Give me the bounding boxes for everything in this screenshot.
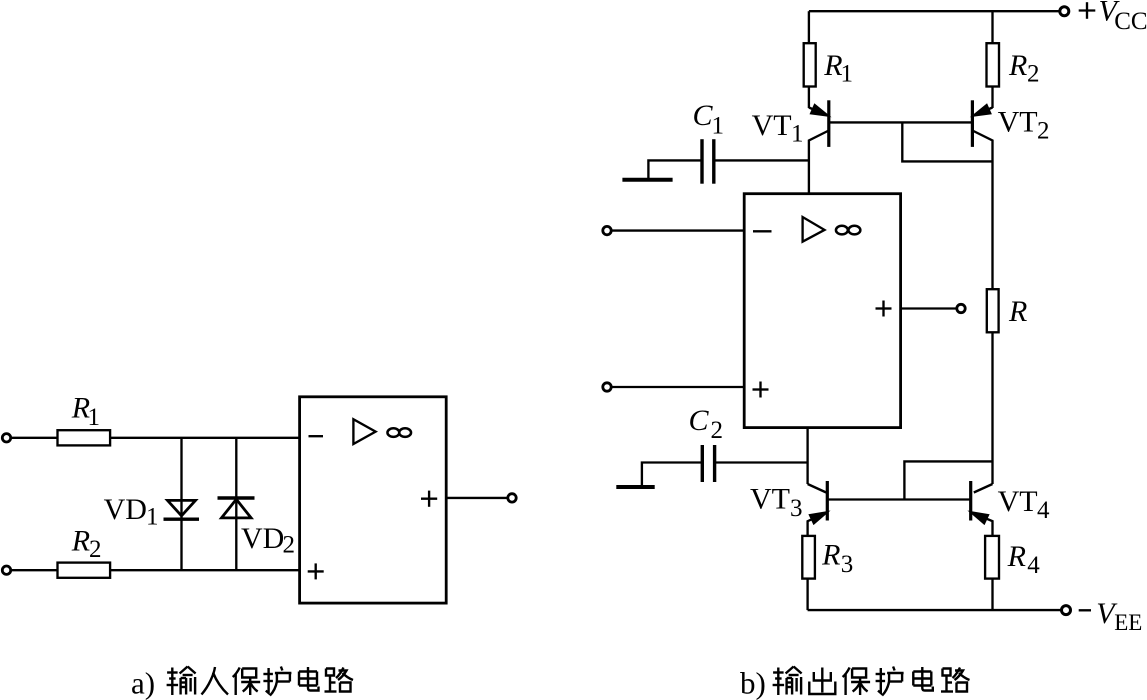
svg-text:VT: VT	[752, 109, 792, 142]
transistor VT2 collector lead	[972, 131, 992, 290]
svg-text:C: C	[689, 404, 710, 437]
wire	[715, 461, 808, 463]
svg-text:2: 2	[711, 417, 724, 444]
wire base VT1-VT2	[829, 121, 973, 123]
svg-text:1: 1	[712, 113, 725, 140]
svg-text:EE: EE	[1114, 610, 1142, 635]
resistor R1b	[804, 43, 816, 86]
transistor VT3 emitter arrow	[810, 512, 827, 523]
svg-text:2: 2	[283, 532, 296, 559]
transistor VT1 collector lead	[809, 131, 829, 194]
transistor VT3 collector lead	[808, 484, 827, 493]
svg-text:VT: VT	[998, 485, 1038, 518]
transistor VT2 bar	[971, 100, 974, 147]
svg-text:CC: CC	[1114, 8, 1147, 35]
wire	[11, 437, 58, 439]
op-amp U1 minus input mark	[309, 435, 324, 437]
svg-text:1: 1	[791, 120, 804, 147]
resistor R4	[985, 536, 999, 579]
wire	[110, 569, 300, 571]
op-amp U1 gain triangle	[353, 419, 375, 444]
transistor VT4 emitter lead	[971, 512, 992, 536]
wire output	[446, 497, 507, 499]
svg-text:2: 2	[1027, 61, 1040, 88]
svg-text:C: C	[693, 99, 714, 132]
wire	[611, 229, 744, 231]
wire	[642, 463, 702, 486]
wire	[991, 11, 993, 43]
svg-text:VD: VD	[104, 493, 147, 526]
transistor VT3 emitter lead	[808, 512, 827, 536]
wire	[808, 87, 810, 109]
transistor VT1 emitter lead	[809, 108, 828, 116]
output terminal OUT1	[508, 494, 516, 502]
VD2 cathode bar	[218, 496, 255, 499]
svg-text:3: 3	[790, 495, 803, 522]
resistor R2b	[987, 43, 1000, 86]
capacitor C2 plates	[701, 445, 704, 482]
transistor VT3 base wire	[827, 498, 970, 500]
op-amp U2 plus output mark	[876, 307, 892, 309]
wire	[991, 579, 993, 611]
svg-text:3: 3	[841, 551, 854, 578]
svg-text:b): b)	[740, 666, 766, 700]
svg-text:2: 2	[89, 536, 102, 563]
ground (C2)	[616, 485, 654, 489]
output terminal OUT2	[957, 304, 965, 312]
resistor R1	[58, 430, 111, 445]
terminal -VEE	[1062, 606, 1071, 615]
caption b chinese: 输出保护电路	[773, 667, 970, 696]
resistor R2	[58, 563, 111, 578]
transistor VT4 base tap	[904, 461, 992, 499]
label +VCC	[1079, 9, 1096, 11]
op-amp U2 plus input mark	[753, 388, 769, 390]
op-amp U1 infinity mark	[387, 428, 399, 437]
svg-text:R: R	[1007, 540, 1026, 573]
resistor R	[987, 289, 999, 332]
wire	[611, 386, 744, 388]
input terminal IN2	[2, 566, 10, 574]
wire	[991, 332, 993, 484]
input terminal b1	[603, 226, 611, 234]
svg-text:4: 4	[1037, 497, 1050, 524]
ground (C1)	[622, 178, 672, 182]
wire op-amp bottom to VT3	[806, 428, 808, 484]
wire	[110, 437, 300, 439]
svg-text:R: R	[71, 525, 90, 558]
svg-text:R: R	[821, 539, 840, 572]
power rail -VEE	[808, 609, 1061, 611]
wire node VD2 branch	[235, 438, 237, 570]
wire base tap to VT2 collector	[902, 122, 992, 161]
wire	[714, 159, 809, 161]
op-amp U1 plus output mark	[421, 498, 437, 500]
wire	[806, 579, 808, 611]
svg-text:VT: VT	[750, 483, 790, 516]
op-amp U1 plus input mark	[308, 570, 324, 572]
svg-text:R: R	[1008, 295, 1027, 328]
label -VEE	[1079, 609, 1091, 611]
transistor VT3 bar	[826, 481, 829, 521]
svg-text:1: 1	[841, 61, 854, 88]
svg-text:VD: VD	[241, 522, 284, 555]
caption a chinese: 输入保护电路	[167, 667, 353, 696]
resistor R3	[802, 536, 815, 579]
transistor VT1 emitter arrow	[811, 105, 827, 115]
op-amp U2 body	[744, 194, 900, 428]
op-amp U2 minus input mark	[753, 230, 772, 232]
terminal +VCC	[1060, 7, 1069, 16]
input terminal b2	[603, 383, 611, 391]
diode VD2	[222, 499, 252, 518]
wire	[991, 87, 993, 109]
op-amp U1 body	[300, 397, 447, 603]
transistor VT4 bar	[969, 481, 972, 521]
wire output	[901, 307, 957, 309]
wire	[648, 160, 702, 178]
svg-text:1: 1	[88, 404, 101, 431]
VD1 cathode bar	[164, 518, 200, 521]
svg-text:VT: VT	[998, 106, 1038, 139]
diode VD1	[168, 500, 196, 515]
op-amp U2 infinity mark	[836, 226, 848, 235]
svg-text:1: 1	[146, 504, 159, 531]
transistor VT2 emitter arrow	[974, 105, 990, 115]
transistor VT2 emitter lead	[974, 108, 993, 116]
transistor VT1 bar	[827, 100, 830, 147]
power rail +VCC	[809, 10, 1059, 12]
input terminal IN1	[2, 434, 10, 442]
svg-text:R: R	[1008, 49, 1027, 82]
capacitor C1 plates	[700, 139, 703, 184]
transistor VT4 emitter arrow	[971, 512, 988, 523]
op-amp U2 gain triangle	[803, 217, 825, 242]
wire	[11, 569, 58, 571]
svg-text:4: 4	[1027, 552, 1040, 579]
svg-text:a): a)	[131, 666, 155, 700]
wire node VD1 branch	[180, 438, 182, 570]
wire	[808, 11, 810, 43]
svg-text:2: 2	[1037, 118, 1050, 145]
transistor VT4 top lead	[974, 484, 993, 493]
